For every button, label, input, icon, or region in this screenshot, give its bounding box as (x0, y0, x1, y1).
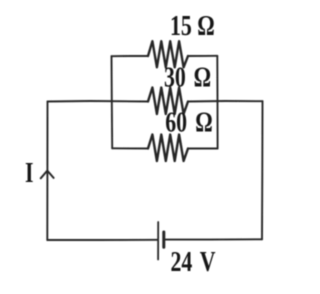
svg-text:30 Ω: 30 Ω (164, 63, 211, 93)
svg-text:24 V: 24 V (171, 248, 216, 278)
svg-text:60 Ω: 60 Ω (165, 108, 213, 138)
svg-text:15 Ω: 15 Ω (170, 11, 215, 41)
svg-text:I: I (25, 159, 33, 189)
